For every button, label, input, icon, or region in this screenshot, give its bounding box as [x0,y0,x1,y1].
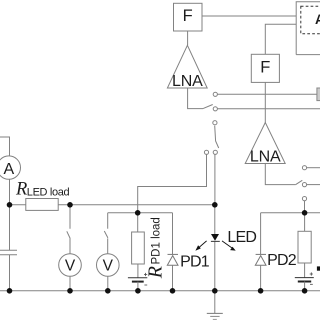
svg-text:LNA: LNA [172,73,203,90]
wire F1 to LNA1 [187,31,189,45]
wire F2 to LNA2 [264,82,266,122]
wire R PD1 load to battery B1 [137,264,139,278]
junction dot ground rail PD2 [258,288,264,294]
LED branch wire from anode node down [214,205,216,234]
wire LED supply input from left edge [0,137,10,156]
label R PD1 load (rotated) [145,217,167,279]
wire node PD2 to resistor R PD2 load [304,213,306,232]
voltmeter V1 [59,254,82,277]
junction dot node PD2 [302,210,308,216]
wire node LED+ to resistor R LED load [10,204,26,206]
op-amp LNA2 triangle [245,123,285,164]
wire S5 upper contact to right edge [307,167,320,169]
svg-text:V: V [103,257,114,274]
battery B2 positive plate [295,277,314,279]
junction dot ground rail V2 [105,288,111,294]
label R PD2 load fragment at right edge [317,266,320,270]
wire photodiode PD2 branch [260,213,262,255]
wire battery B1 to ground rail [137,282,139,291]
wire photodiode PD1 branch [172,213,174,255]
photodiode PD2 triangle [255,256,266,266]
junction dot V1 branch [67,202,73,208]
battery B1 minus mark [144,284,147,286]
LED light arrow to PD2 [222,241,236,251]
ground rail wire [0,290,320,292]
junction dot ground rail LED [212,288,218,294]
wire LNA2 input down [265,164,295,185]
switch S3 contact lower [213,107,217,111]
ADC dashed inner box [301,6,320,34]
wire PD1 to ground rail [172,265,174,291]
wire PD2 to ground rail [260,265,262,291]
battery B1 positive plate [128,277,147,279]
battery B2 minus mark [310,283,313,285]
svg-text:LED: LED [227,229,256,246]
junction dot ground rail B2 [302,288,308,294]
junction dot ground rail B1 [135,288,141,294]
battery B2 negative plate [298,281,311,283]
junction dot node LED+ [7,202,13,208]
svg-text:LNA: LNA [250,148,281,165]
ADC box outline [296,2,320,55]
battery B1 negative plate [132,281,144,283]
svg-text:R: R [15,180,27,200]
switch S5 lever input select [296,180,303,184]
resistor at right edge (cut off) [317,88,320,101]
wire S4 right throw to LED anode node [214,154,216,204]
ground symbol [214,291,216,314]
LED symbol filled triangle [211,234,219,241]
switch S5 contact lower [302,183,306,187]
junction dot ground rail V1 [67,288,73,294]
wire S6 contact to node PD2 [304,201,306,213]
wire node LED+ down to capacitor [9,205,11,250]
wire LNA1 input down [188,88,203,109]
wire F1 to ADC box [202,15,296,17]
svg-text:V: V [65,257,76,274]
svg-text:PD2: PD2 [267,252,297,269]
wire node PD1 to resistor R PD1 load [137,213,139,232]
capacitor C1 bottom plate [0,254,17,256]
LED cathode bar [211,240,220,242]
photodiode PD1 cathode bar [168,253,179,255]
filter F2 box [251,54,279,82]
svg-text:F: F [260,58,270,76]
wire switch S2 to voltmeter V2 [107,238,109,253]
resistor R LED load body [26,199,58,211]
switch S2 lever of V2 branch [104,231,108,238]
wire voltmeter V2 to ground rail [107,276,109,291]
switch S4 lever [215,126,219,148]
svg-text:F: F [183,7,193,25]
battery B1 plus mark [144,273,147,276]
wire F2 to ADC box [265,24,296,54]
wire V1 meter branch upper [69,205,71,229]
filter F1 box [174,3,203,31]
svg-text:PD1 load: PD1 load [150,217,162,264]
junction dot ground rail left [7,288,13,294]
wire V2 meter branch upper [107,213,109,229]
resistor R PD2 load body [298,231,311,263]
wire S5 lower contact to right edge [307,184,320,186]
switch S4 throw contact left [204,150,208,154]
ammeter A [0,156,21,179]
svg-text:A: A [3,161,14,178]
switch S3 lever input select [203,105,213,109]
wire capacitor to ground rail [9,255,11,291]
switch S4 common contact [213,121,217,125]
svg-text:AD: AD [315,12,320,27]
op-amp LNA1 triangle [167,45,207,88]
LED light arrow to PD1 [195,241,206,251]
photodiode PD2 cathode bar [256,253,266,255]
wire S3 upper contact to right resistor [217,93,317,95]
switch S5 contact upper [302,166,306,170]
wire S3 lower contact to right edge [217,108,320,110]
wire ammeter to node LED+ [9,179,11,205]
svg-text:LED load: LED load [27,186,70,198]
wire battery B2 to ground rail [304,282,306,291]
svg-text:R: R [145,266,167,279]
switch S6 contact above node PD2 [302,197,306,201]
resistor R PD1 load body [132,232,145,264]
junction dot node PD1 [135,210,141,216]
wire LED cathode to ground rail [214,241,216,290]
photodiode PD1 triangle [167,256,178,266]
battery B2 plus mark [310,272,313,275]
wire voltmeter V1 to ground rail [69,276,71,291]
wire R PD2 load to battery B2 [304,263,306,278]
wire node PD2 rail [261,212,320,214]
capacitor C1 top plate [0,249,17,251]
junction dot LED anode node [212,202,218,208]
switch S1 lever of V1 branch [67,231,70,238]
svg-text:PD1: PD1 [180,254,210,271]
wire node PD1 rail [108,212,173,214]
wire S4 left throw to node PD1 [138,154,207,212]
wire R LED load to LED anode node [58,204,215,206]
wire switch S1 to voltmeter V1 [69,239,71,254]
voltmeter V2 [97,254,120,277]
junction dot ground rail PD1 [170,288,176,294]
switch S4 throw contact right [213,150,217,154]
switch S3 contact upper [213,92,217,96]
